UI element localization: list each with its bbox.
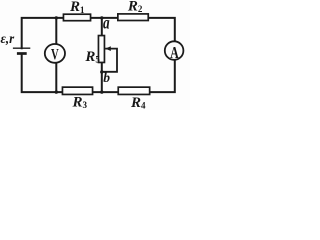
junction at voltmeter top (55, 16, 58, 19)
svg-text:ε,r: ε,r (1, 31, 15, 47)
voltmeter V (45, 44, 65, 63)
node a (100, 16, 103, 19)
wire: R2 to top-right corner down to ammeter top (149, 18, 175, 41)
wire: ammeter bottom to bottom-right corner left to R4 (151, 61, 175, 93)
rheostat R5 (98, 36, 104, 63)
junction below node b (100, 90, 103, 93)
wire: R5 bottom through node b to bottom wire (101, 63, 103, 92)
svg-text:a: a (103, 14, 110, 33)
resistor R2 (118, 14, 148, 21)
svg-text:V: V (51, 45, 59, 63)
wire: rheostat wiper and return to node b (103, 49, 117, 72)
svg-text:b: b (103, 70, 110, 85)
wire: battery top up to top-left corner and right to R1 (22, 18, 63, 48)
wire: top between R1 and R2 through node a (91, 17, 117, 19)
battery ε,r plates (13, 48, 30, 53)
wire: R3 left to bottom-left corner up to battery bottom plate (22, 54, 62, 92)
svg-text:A: A (170, 44, 179, 62)
resistor R1 (63, 14, 90, 21)
wiper arrowhead (105, 46, 111, 51)
wire: node a down to R5 top (101, 18, 103, 35)
junction at voltmeter bottom (55, 90, 58, 93)
node b (100, 70, 103, 73)
wire: bottom between R4 and R3 through node below b (93, 91, 117, 93)
wire: voltmeter branch lower segment (55, 63, 57, 92)
resistor R4 (118, 87, 149, 94)
wire: voltmeter branch upper segment (55, 18, 57, 44)
resistor R3 (62, 87, 92, 94)
ammeter A (165, 41, 184, 62)
